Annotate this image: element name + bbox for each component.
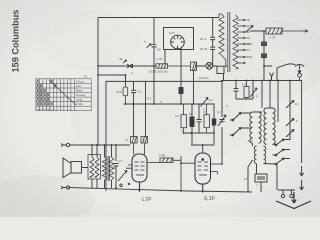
wire tube V1 anode drop bbox=[180, 55, 182, 88]
capacitor C3 bbox=[234, 81, 254, 100]
potentiometer P2 bbox=[118, 171, 130, 187]
output tube V2 bbox=[126, 154, 147, 191]
table labels bbox=[37, 75, 88, 111]
terminal bottom left bbox=[61, 186, 70, 189]
resistor R4 bbox=[244, 81, 249, 100]
resistor R8 bbox=[123, 87, 128, 104]
field coil bbox=[88, 155, 101, 180]
resistor R7 bbox=[147, 156, 181, 191]
wire y75 line bbox=[98, 74, 126, 76]
wire bus y80 right bbox=[221, 80, 302, 82]
capacitor C7 bbox=[255, 174, 267, 192]
trimmer capacitor bbox=[218, 81, 226, 164]
capacitor C8 bbox=[114, 164, 119, 189]
wire if drops bbox=[262, 81, 290, 141]
switch S2 antenna lever bbox=[277, 64, 296, 80]
fuse F1 bbox=[217, 66, 224, 80]
wire V1 anode bbox=[180, 48, 182, 55]
capacitor C2 bbox=[262, 54, 273, 81]
tube V2 top caps bbox=[131, 137, 148, 155]
chassis ground bbox=[276, 192, 311, 209]
wire shield box top bbox=[106, 80, 222, 82]
capacitor C10 bbox=[147, 44, 157, 48]
wire x145 bbox=[145, 81, 147, 136]
loudspeaker bbox=[63, 158, 88, 178]
tube V1 bbox=[171, 35, 185, 49]
band switch S4 bbox=[264, 139, 291, 165]
wire row collector bbox=[184, 133, 215, 145]
table cross marks bbox=[37, 80, 57, 106]
wire speaker drops bbox=[92, 145, 116, 161]
speaker terminal bbox=[61, 143, 130, 146]
terminal TA2 bbox=[290, 190, 293, 198]
capacitor C4 electrolytic bbox=[190, 104, 194, 134]
potentiometer P3 bbox=[201, 98, 209, 107]
diode D1 bbox=[123, 60, 133, 68]
voltage selector switch S1 bbox=[246, 26, 266, 33]
wire vertical x146 bbox=[153, 18, 155, 105]
switch S3 bbox=[230, 113, 250, 136]
wire rect to R1 bbox=[164, 50, 166, 64]
antenna bbox=[295, 64, 304, 80]
capacitor C5 bbox=[197, 104, 202, 134]
wire left rail bbox=[97, 18, 99, 146]
capacitor C11 bbox=[179, 88, 183, 94]
wire y66 line bbox=[98, 65, 156, 67]
wire shield box left bbox=[105, 81, 107, 191]
wire top rail bbox=[98, 17, 219, 19]
resistor R5 bbox=[181, 104, 187, 134]
jack Y bbox=[270, 73, 274, 81]
capacitor C6 bbox=[212, 104, 216, 134]
terminal TA1 bbox=[277, 164, 295, 198]
resistor R3 bbox=[266, 28, 308, 34]
wire R2 drop bbox=[193, 71, 195, 105]
trimmer arrows right bbox=[286, 101, 294, 138]
wire right vertical bbox=[301, 80, 303, 163]
wire x133 bbox=[133, 104, 135, 137]
tube V3 bbox=[181, 153, 222, 192]
mains transformer T1 bbox=[219, 12, 245, 72]
resistor R2 bbox=[191, 62, 197, 71]
wire osc tap bbox=[248, 160, 253, 192]
oscillator coil T4 bbox=[248, 146, 266, 192]
small value labels bbox=[125, 72, 298, 188]
wire bottom bus bbox=[68, 188, 252, 193]
wires: main rails bbox=[68, 18, 302, 193]
wire drop to resistor bbox=[125, 75, 127, 87]
tube V1 rectifier loop bbox=[164, 28, 194, 64]
table diagonal bbox=[49, 80, 76, 105]
switch table bbox=[36, 79, 91, 111]
resistor R6 bbox=[204, 104, 210, 134]
lamp L1 bbox=[197, 63, 218, 70]
wire coil bottoms bbox=[92, 179, 112, 188]
tuning capacitor arrows bbox=[300, 166, 304, 190]
wire tube V3 top bbox=[191, 133, 214, 153]
potentiometer P1 bbox=[250, 81, 257, 100]
output transformer T5 bbox=[102, 156, 113, 181]
capacitor C9 bbox=[131, 81, 136, 104]
resistor R1 bbox=[156, 64, 191, 68]
capacitor C1 bbox=[262, 31, 267, 54]
capacitor C12 bbox=[210, 18, 215, 67]
IF transformer T3 bbox=[264, 108, 275, 144]
IF transformer T2 bbox=[250, 112, 262, 146]
wire center bus y104 bbox=[124, 103, 215, 105]
